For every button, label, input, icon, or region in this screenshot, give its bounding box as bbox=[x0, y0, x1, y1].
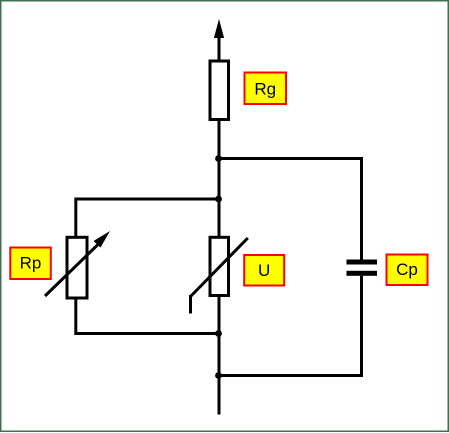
varistor U bbox=[191, 237, 248, 313]
wire Rp branch to node C bbox=[76, 332, 219, 335]
svg-text:U: U bbox=[258, 261, 270, 280]
resistor Rg bbox=[210, 61, 229, 120]
wire Cp bottom lead bbox=[360, 276, 363, 377]
label Rg bbox=[245, 73, 287, 105]
wire Rp top lead bbox=[74, 198, 77, 238]
wire node A to Cp branch bbox=[219, 157, 362, 160]
capacitor Cp bbox=[347, 260, 378, 276]
wire node C to node D bbox=[218, 334, 221, 376]
wire Cp branch to node D bbox=[219, 374, 362, 377]
wire node B to Rp branch bbox=[76, 198, 219, 201]
node C bbox=[215, 330, 222, 337]
wire bottom lead bbox=[218, 376, 221, 415]
label Cp bbox=[387, 255, 428, 286]
label U bbox=[244, 255, 284, 286]
wire Cp top lead bbox=[360, 157, 363, 260]
wire node A to node B bbox=[218, 159, 221, 200]
wire Rp bottom lead bbox=[74, 298, 77, 335]
svg-text:Cp: Cp bbox=[396, 260, 418, 279]
node A bbox=[215, 155, 222, 162]
terminal arrow bbox=[214, 19, 224, 61]
node B bbox=[215, 196, 222, 203]
wire Rg to node A bbox=[218, 120, 221, 159]
wire U to node C bbox=[218, 296, 221, 334]
resistor Rp (variable) bbox=[45, 231, 110, 298]
node D bbox=[215, 372, 222, 379]
wire node B to varistor U bbox=[218, 199, 221, 237]
svg-text:Rg: Rg bbox=[254, 80, 276, 99]
label Rp bbox=[10, 248, 51, 280]
svg-text:Rp: Rp bbox=[20, 253, 42, 272]
